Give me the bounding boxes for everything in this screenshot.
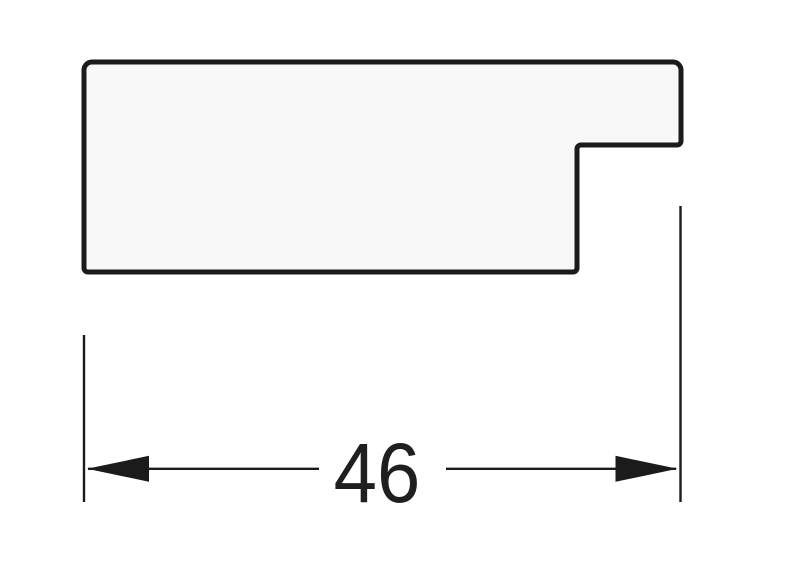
right arrowhead <box>616 456 678 482</box>
left arrowhead <box>87 456 149 482</box>
right extension line <box>679 206 681 502</box>
svg-text:46: 46 <box>334 427 421 520</box>
moulding profile outline <box>84 62 681 272</box>
left extension line <box>83 335 85 502</box>
dimension line left segment <box>88 468 319 470</box>
dimension line right segment <box>446 468 676 470</box>
